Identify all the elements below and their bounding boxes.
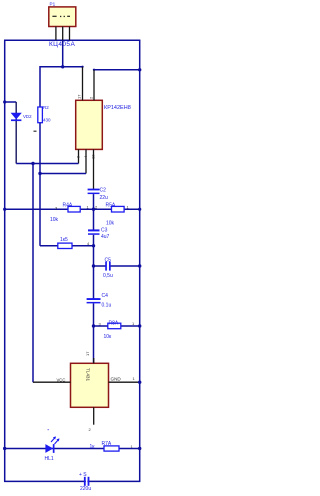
regulator U1	[76, 100, 103, 149]
wire diode stub from rail	[5, 101, 17, 103]
diode VD2	[11, 113, 22, 121]
pin U1 top-left	[82, 67, 84, 101]
wire R8 row	[94, 325, 141, 327]
pin U2 bottom	[93, 407, 95, 424]
svg-text:22u: 22u	[100, 195, 109, 201]
pin U1 bottom-3	[93, 149, 95, 189]
resistor R8	[108, 323, 121, 329]
svg-text:R5А: R5А	[106, 203, 116, 209]
svg-text:430: 430	[43, 117, 51, 122]
svg-text:GND: GND	[111, 377, 122, 382]
wire U2 left pin	[33, 381, 71, 383]
svg-text:P1: P1	[50, 2, 56, 7]
svg-text:10к: 10к	[104, 334, 113, 340]
wire diode vertical	[15, 102, 17, 164]
shunt regulator U2	[71, 363, 109, 407]
wire cap chain c	[93, 303, 95, 363]
junction	[92, 208, 95, 211]
wire divider row	[5, 208, 140, 210]
wire regulator pin2 to right rail	[94, 69, 140, 71]
capacitor C3	[88, 229, 100, 234]
svg-text:R4А: R4А	[63, 202, 73, 208]
wire pin2 row	[40, 173, 86, 175]
svg-text:": "	[48, 429, 50, 435]
wire left rail	[4, 40, 6, 481]
pin U2 top	[93, 358, 95, 363]
wire cap chain a	[93, 194, 95, 230]
pin U1 bottom-2	[85, 149, 87, 173]
LED HL1	[45, 436, 59, 453]
junction	[92, 244, 95, 247]
capacitor C5	[105, 262, 111, 271]
svg-text:2: 2	[89, 96, 94, 99]
svg-text:0,5u: 0,5u	[103, 273, 113, 279]
svg-text:TL431: TL431	[86, 368, 91, 381]
tick	[34, 131, 37, 132]
svg-text:17: 17	[77, 94, 82, 99]
svg-text:VD2: VD2	[23, 114, 32, 119]
svg-text:4u7: 4u7	[101, 234, 110, 240]
svg-text:0.1u: 0.1u	[102, 303, 112, 309]
wire pin1 row	[16, 163, 78, 165]
capacitor C2	[88, 189, 100, 195]
resistor R2	[38, 107, 43, 123]
pin U1 top-right	[93, 70, 95, 101]
wire bridge output drop	[62, 40, 64, 67]
junction	[3, 447, 6, 450]
wire LED row	[5, 448, 140, 450]
svg-text:10k: 10k	[106, 221, 115, 227]
junction	[3, 208, 6, 211]
resistor R7	[104, 446, 119, 451]
junction	[138, 264, 141, 267]
svg-text:C3: C3	[101, 228, 108, 234]
svg-text:10k: 10k	[50, 217, 59, 223]
svg-text:R8А: R8А	[109, 320, 119, 326]
node pin connection dots	[81, 66, 83, 68]
junction	[138, 68, 141, 71]
svg-text:R7А: R7А	[102, 441, 112, 447]
resistor R5	[112, 206, 125, 212]
svg-text:C4: C4	[102, 293, 109, 299]
svg-text:12: 12	[91, 154, 96, 159]
capacitor C6	[84, 477, 90, 486]
svg-text:C5: C5	[105, 258, 112, 264]
pin U1 bottom-1	[78, 149, 80, 163]
svg-text:1к5: 1к5	[60, 237, 68, 243]
svg-text:+ S: + S	[79, 472, 87, 478]
wire right rail	[139, 40, 141, 481]
svg-text:КР142ЕН8: КР142ЕН8	[104, 105, 131, 111]
wire bottom	[4, 480, 140, 482]
wire R2 bottom down	[39, 123, 41, 246]
junction	[138, 208, 141, 211]
wire U2 right pin	[109, 381, 141, 383]
svg-text:17: 17	[85, 351, 90, 356]
junction	[92, 324, 95, 327]
svg-text:VCC: VCC	[57, 378, 66, 383]
wire R6 row	[40, 245, 94, 247]
junction	[138, 447, 141, 450]
junction	[138, 381, 141, 384]
junction	[92, 264, 95, 267]
wire C5 row	[94, 265, 106, 267]
svg-text:HL1: HL1	[45, 456, 54, 462]
svg-text:R2: R2	[43, 105, 49, 110]
wire gap at C6	[86, 480, 88, 483]
svg-text:C2: C2	[100, 188, 107, 194]
svg-text:1к: 1к	[90, 444, 96, 450]
pin 1 of P1	[55, 27, 57, 41]
resistor R4	[68, 206, 80, 212]
pin 3 of P1	[69, 27, 71, 41]
bridge rectifier P1	[49, 7, 76, 27]
svg-text:1: 1	[133, 376, 136, 381]
junction	[61, 65, 64, 68]
junction	[138, 324, 141, 327]
junction	[3, 100, 6, 103]
pin 2 of P1	[62, 27, 64, 41]
capacitor C4	[87, 298, 101, 303]
junction	[38, 172, 41, 175]
svg-text:2: 2	[89, 427, 92, 432]
wire to regulator input	[40, 67, 83, 107]
wire TL431 vcc vertical	[32, 164, 34, 383]
svg-text:220u: 220u	[80, 486, 91, 492]
junction	[31, 162, 34, 165]
resistor R6	[58, 243, 72, 248]
wire cap chain b	[93, 235, 95, 299]
wire top	[4, 39, 140, 41]
